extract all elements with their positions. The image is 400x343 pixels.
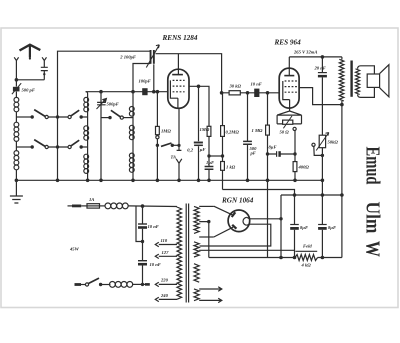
resistor R3 30k: [229, 91, 240, 95]
filament rails 50 ohm humdinger: [277, 115, 301, 124]
switch S1 row1 right: [68, 115, 71, 118]
capacitor 20nF tone: [321, 57, 323, 73]
capacitor C 8uF filter 1: [294, 195, 296, 224]
speaker: [358, 66, 375, 74]
wire bottom return line: [209, 257, 342, 259]
wire trimmer to grid: [153, 64, 155, 91]
svg-text:8µF: 8µF: [328, 225, 336, 230]
svg-text:10 nF: 10 nF: [150, 262, 161, 267]
svg-text:1µF: 1µF: [206, 160, 214, 165]
trimmer capacitor 500pF antenna: [15, 80, 17, 87]
wire screen feed line y93: [222, 92, 280, 94]
power transformer secondary s2: [194, 242, 199, 257]
svg-text:1 MΩ: 1 MΩ: [252, 128, 264, 133]
power transformer primary: [177, 207, 182, 300]
wire antenna left lead: [15, 63, 17, 80]
potentiometer 50k tone: [319, 135, 325, 148]
wire B+ rail: [281, 194, 342, 196]
power transformer secondary s3: [194, 264, 199, 283]
capacitor 8uF bias: [268, 153, 296, 155]
svg-text:220: 220: [160, 278, 169, 283]
inductor mains choke upper: [100, 205, 106, 207]
power transformer secondary s1 HV: [194, 206, 199, 233]
svg-text:µF: µF: [199, 147, 206, 152]
switch mains on/off: [75, 283, 82, 286]
svg-text:1MΩ: 1MΩ: [161, 129, 171, 134]
resistor R4 0.2M: [222, 93, 224, 126]
output transformer primary: [339, 59, 344, 101]
tap 110: [155, 242, 177, 246]
svg-text:W: W: [361, 241, 383, 257]
svg-text:0,2: 0,2: [187, 147, 193, 152]
svg-text:110: 110: [161, 238, 168, 243]
inductor L1 antenna coil: [14, 97, 19, 102]
inductor mains choke lower: [110, 282, 116, 288]
svg-text:100pF: 100pF: [139, 79, 151, 84]
resistor R6 1M grid leak RES: [267, 93, 269, 125]
svg-text:127: 127: [162, 250, 170, 255]
potentiometer 50 ohm: [283, 120, 293, 124]
ground: [15, 179, 19, 183]
svg-text:50kΩ: 50kΩ: [328, 140, 339, 145]
svg-text:0,2MΩ: 0,2MΩ: [226, 130, 240, 135]
capacitor 10nF mains lower: [138, 260, 147, 262]
svg-text:10 nF: 10 nF: [251, 82, 262, 87]
wire top cap line: [156, 54, 222, 93]
wire main ground bus: [16, 179, 322, 181]
svg-text:1 kΩ: 1 kΩ: [226, 165, 236, 170]
svg-text:RENS 1284: RENS 1284: [162, 34, 198, 42]
transformer core: [186, 204, 188, 303]
output transformer core: [350, 61, 352, 97]
svg-text:400Ω: 400Ω: [298, 165, 310, 170]
wire screen line: [299, 88, 342, 105]
svg-text:4 kΩ: 4 kΩ: [301, 263, 312, 268]
resistor R5 1k: [221, 162, 225, 171]
tube U3 RGN1064 rectifier: [228, 210, 250, 232]
resistor R1 1M grid leak: [156, 92, 158, 127]
tap 220: [155, 282, 177, 286]
trimmer capacitor 2-100pF: [150, 50, 152, 64]
tap 127: [155, 254, 177, 258]
switch S2 row2 right: [68, 145, 71, 148]
wire B+ right vertical: [341, 105, 343, 258]
wire anode line RENS: [189, 86, 209, 126]
capacitor 10nF coupling: [254, 89, 259, 97]
power transformer secondary s4: [194, 289, 199, 301]
svg-text:pF: pF: [250, 151, 256, 156]
output transformer secondary: [356, 69, 360, 95]
wire filament winding line: [199, 249, 294, 251]
capacitor C 8uF filter 2: [321, 195, 323, 224]
svg-text:500pF: 500pF: [107, 102, 119, 107]
antenna terminal left: [14, 57, 18, 62]
svg-text:8µF: 8µF: [300, 225, 308, 230]
svg-text:8µF: 8µF: [269, 145, 277, 150]
resistor R7 400 ohm: [294, 130, 296, 161]
wire heater stubs: [199, 287, 222, 291]
svg-text:1A: 1A: [89, 197, 94, 202]
svg-text:Ulm: Ulm: [361, 202, 383, 234]
wire oscillator column and top bus: [58, 51, 151, 180]
switch S2 row2 left: [16, 146, 31, 148]
node antenna cap lead: [43, 73, 45, 75]
svg-text:50 Ω: 50 Ω: [280, 130, 290, 135]
svg-text:RES 964: RES 964: [274, 39, 302, 47]
wire grid line: [86, 91, 168, 93]
svg-text:265 V 32mA: 265 V 32mA: [293, 50, 317, 55]
wire cathode vertical: [280, 195, 282, 258]
svg-text:240: 240: [160, 293, 169, 298]
antenna: [20, 45, 41, 51]
wire caps midpoint + bypass: [142, 229, 144, 261]
switch S1 row1 left: [16, 116, 31, 118]
field coil Feld 4k: [295, 250, 317, 252]
antenna terminal right: [42, 57, 46, 62]
svg-text:1MΩ: 1MΩ: [200, 127, 210, 132]
filament RGN: [243, 217, 247, 225]
svg-text:Emud: Emud: [361, 147, 383, 185]
tube U2 RES964: [279, 68, 299, 108]
svg-text:500 pF: 500 pF: [22, 88, 35, 93]
svg-text:30 kΩ: 30 kΩ: [229, 84, 242, 89]
svg-text:Feld: Feld: [303, 244, 312, 249]
svg-text:10 nF: 10 nF: [148, 224, 159, 229]
resistor R2 1M: [207, 126, 211, 136]
wire node line y156: [209, 155, 223, 157]
inductor L3 grid coil: [132, 107, 134, 181]
capacitor 10nF mains upper: [142, 206, 144, 224]
wire L3 riser to trimmer: [133, 64, 150, 107]
wire anode line RES to output transformer: [289, 56, 342, 58]
svg-text:45W: 45W: [69, 247, 80, 252]
svg-text:20 nF: 20 nF: [314, 66, 326, 71]
inductor L2 RF coil: [86, 92, 88, 181]
tube U1 RENS1284: [168, 69, 189, 108]
fuse 1A: [81, 205, 87, 207]
svg-text:TA: TA: [171, 155, 177, 160]
wire HV bottom to anode2: [199, 236, 214, 238]
wire HV center tap: [199, 222, 209, 258]
wire antenna junction: [16, 79, 44, 81]
wire bias line: [223, 190, 295, 196]
tap 240: [155, 297, 177, 301]
anode plate 2: [214, 227, 233, 237]
variable capacitor 500pF tuning: [100, 92, 102, 181]
capacitor 500pF: [247, 93, 249, 141]
wire PSU left vertical: [267, 180, 269, 257]
svg-text:2 100pF: 2 100pF: [119, 55, 136, 60]
node TA terminal: [177, 108, 182, 150]
capacitor antenna series: [41, 63, 48, 80]
capacitor 100pF grid: [142, 88, 147, 95]
wire HV top to anode1: [199, 205, 214, 207]
switch S4 radio/phono: [156, 136, 159, 139]
svg-text:RGN 1064: RGN 1064: [221, 197, 254, 205]
capacitor 0.2uF: [198, 86, 200, 141]
voltage selector pin: [145, 283, 150, 286]
capacitor 1uF: [205, 167, 214, 170]
mains terminal pin: [68, 205, 73, 207]
anode plate 1: [214, 206, 233, 215]
switch S3 row1 tuning: [101, 117, 110, 119]
